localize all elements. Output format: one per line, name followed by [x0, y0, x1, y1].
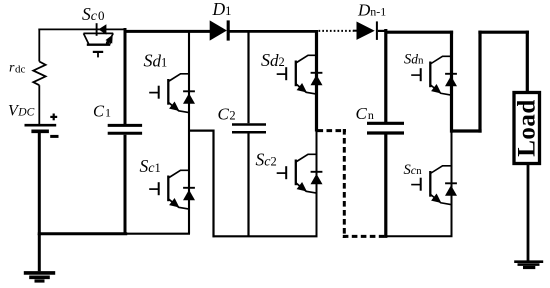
diode of Sd1 (anti-parallel): [183, 91, 195, 104]
wire top thick C1-node to D1: [124, 30, 211, 33]
diode of Sc2 (anti-parallel): [311, 172, 323, 185]
diode D1: [210, 20, 229, 40]
transistor Scn: [411, 166, 451, 205]
transistor Sd2: [277, 55, 317, 94]
capacitor C1: [108, 125, 142, 133]
wire D1 to leg2 node: [230, 30, 319, 33]
battery VDC: [25, 125, 57, 131]
wire Cn to bottom rail: [384, 135, 387, 238]
diode Dn-1: [353, 21, 387, 40]
wire leg-n vertical thin lower: [451, 131, 453, 236]
transistor Sc0 (horizontal IGBT below top wire): [84, 33, 114, 57]
diode of Sdn (anti-parallel): [445, 74, 457, 87]
capacitor Cn: [367, 123, 404, 133]
wire bottom rail cell1 thick part: [38, 232, 127, 235]
wire output down to load: [526, 31, 529, 93]
diode of Sc0 (anti-parallel, on wire, pointing left): [97, 23, 107, 36]
svg-text:Scn: Scn: [404, 162, 423, 178]
wire bottom rail cell2: [213, 235, 318, 237]
transistor Sc1: [149, 170, 189, 209]
wire bottom rail cell1 thin part: [126, 233, 190, 235]
ground (load): [514, 262, 543, 268]
wire output riser vertical: [478, 31, 481, 133]
wire left branch vertical upper: [38, 29, 40, 62]
battery minus sign: [50, 135, 58, 138]
diode of Sd2 (anti-parallel): [311, 73, 323, 86]
wire leg2 vertical thick upper: [315, 30, 318, 132]
svg-text:rdc: rdc: [9, 61, 25, 76]
resistor rdc: [33, 62, 45, 86]
wire C1 to bottom rail: [124, 135, 127, 235]
wire leg1 vertical (top wire to bottom rail): [188, 30, 190, 234]
wire battery to bottom rail: [38, 133, 41, 235]
svg-text:Load: Load: [514, 99, 541, 157]
wire top dotted continuation (leg2 node to Dn-1): [319, 30, 354, 32]
wire output top horizontal: [478, 31, 529, 34]
wire top thick Dn-1 to leg-n: [385, 31, 454, 34]
wire leg1 midpoint to cell2 bottom (node A): [189, 130, 215, 132]
diode of Scn (anti-parallel): [445, 183, 457, 196]
wire top-left horizontal (source to Sc0 to C1 node): [38, 28, 124, 30]
diode of Sc1 (anti-parallel): [183, 188, 195, 201]
wire load to ground: [527, 164, 530, 262]
battery plus sign: [50, 116, 57, 118]
wire Cn branch upper: [384, 29, 387, 122]
transistor Sd1: [149, 74, 189, 113]
wire bottom rail cell n: [385, 235, 453, 237]
svg-text:Sdn: Sdn: [404, 51, 424, 67]
capacitor C2: [232, 125, 266, 133]
wire C1 branch upper (node to C1): [124, 28, 127, 124]
wire leg2 midpoint dashed to cell-n bottom: [318, 129, 347, 132]
wire resistor to battery: [38, 85, 40, 124]
wire leg-n midpoint to output riser: [451, 129, 482, 132]
wire C2 branch upper: [247, 30, 249, 123]
transistor Sdn: [411, 56, 451, 95]
ground (source): [24, 234, 55, 281]
wire leg-n vertical thick upper: [450, 31, 453, 133]
transistor Sc2: [277, 154, 317, 193]
load (box): [514, 93, 540, 164]
wire leg2 vertical thin lower: [316, 131, 318, 237]
wire C2 to bottom rail: [247, 133, 249, 236]
